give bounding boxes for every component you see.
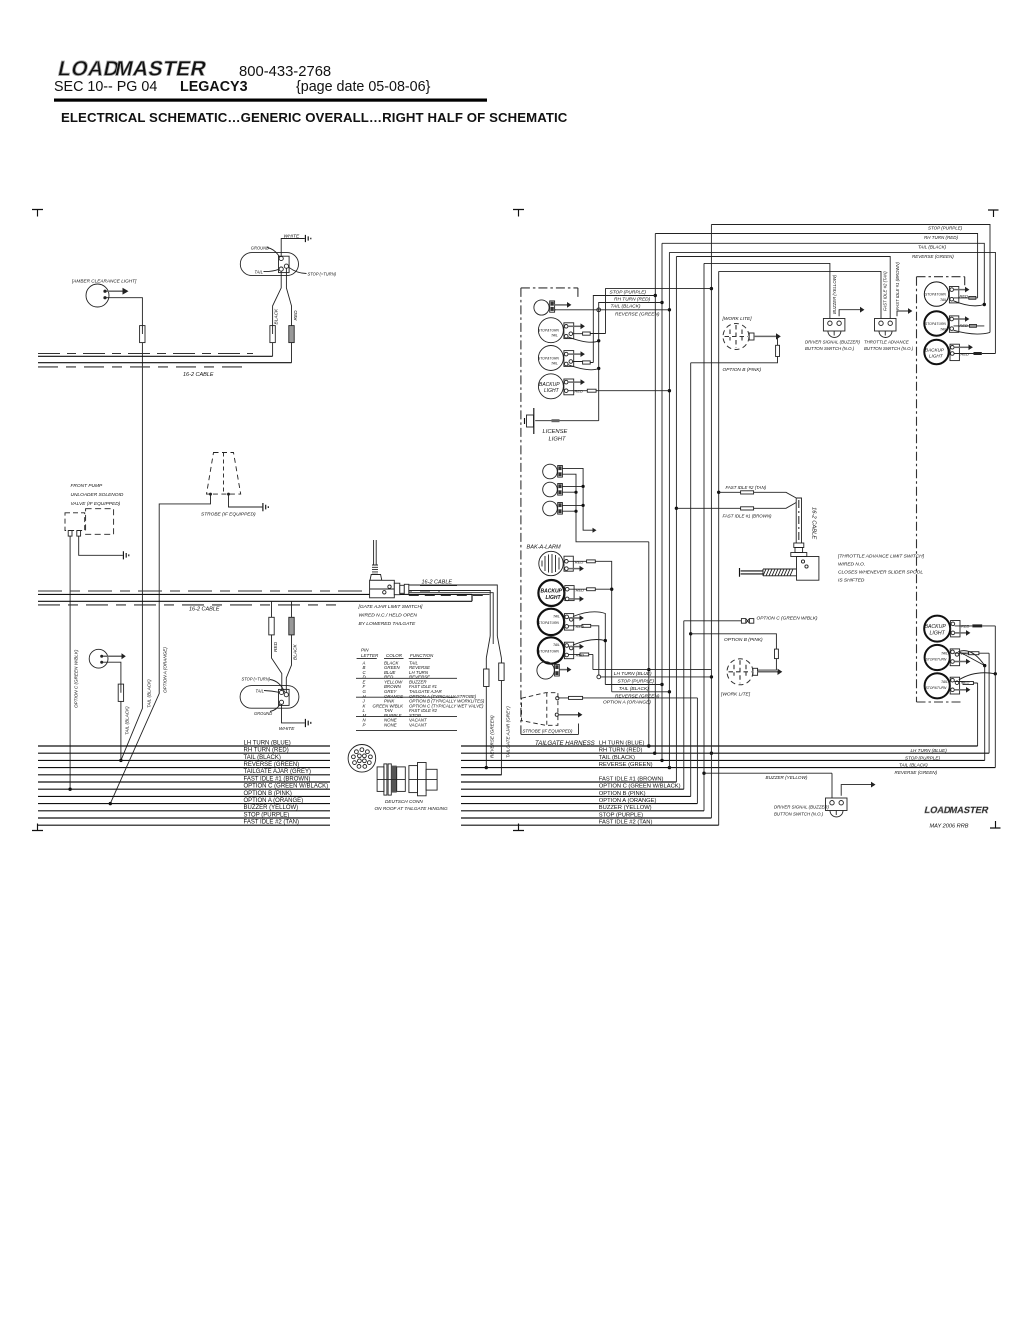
svg-text:UNLOADER SOLENOID: UNLOADER SOLENOID [71,492,124,498]
strobe (if equipped) tailgate [522,693,558,726]
wire RED from stop pin down [286,268,291,325]
tail diagonal lamp2 [568,365,599,370]
strobe (if equipped) dashed lamp [207,453,241,495]
svg-text:BUTTON SWITCH (N.O.): BUTTON SWITCH (N.O.) [864,346,914,351]
svg-text:[AMBER CLEARANCE LIGHT]: [AMBER CLEARANCE LIGHT] [71,279,137,284]
svg-text:BACKUP: BACKUP [925,624,947,630]
svg-text:[WORK LITE]: [WORK LITE] [722,316,753,322]
dots tail chain [597,339,600,342]
small lamp bottom of cluster [537,662,554,679]
svg-text:OPTION C (GREEN W/BLACK): OPTION C (GREEN W/BLACK) [599,784,681,790]
svg-text:[WORK LITE]: [WORK LITE] [720,692,751,698]
svg-text:TAIL: TAIL [256,689,264,694]
svg-text:CLOSES WHENEVER SLIDER SPOOL: CLOSES WHENEVER SLIDER SPOOL [838,570,923,576]
svg-text:STOP&TURN: STOP&TURN [926,686,947,690]
header rule [54,99,487,102]
fuse black wire [270,326,275,343]
svg-text:STOP&TURN: STOP&TURN [538,650,559,654]
throttle advance button switch [875,319,897,332]
svg-text:STOP (PURPLE): STOP (PURPLE) [905,755,940,760]
svg-text:OPTION A (ORANGE): OPTION A (ORANGE) [603,699,651,705]
svg-text:STOP (PURPLE): STOP (PURPLE) [618,678,655,684]
svg-text:STOP (PURPLE): STOP (PURPLE) [928,226,963,231]
svg-text:TAILGATE HARNESS: TAILGATE HARNESS [535,740,595,747]
fuse red wire [289,326,294,343]
svg-text:TAIL: TAIL [941,680,948,684]
fuse on amber tail wire [140,326,145,343]
funnel into two wires [486,636,501,658]
svg-text:ON ROOF AT TAILGATE HINGING: ON ROOF AT TAILGATE HINGING [375,806,449,811]
svg-text:WIRED N.C./ HELD OPEN: WIRED N.C./ HELD OPEN [359,613,418,619]
svg-text:OPTION B (PINK): OPTION B (PINK) [724,637,763,643]
svg-text:STOP&TURN: STOP&TURN [925,293,946,297]
svg-text:WIRED N.O.: WIRED N.O. [838,562,865,568]
svg-text:OPTION C (GREEN W/BLK): OPTION C (GREEN W/BLK) [757,616,818,622]
wire strobe left terminal to OPTION A [110,496,210,804]
right bottom lamp tail/stop&turn #2 [925,673,950,698]
logo LOADMASTER header [56,58,209,81]
wire TAIL (BLACK) from lamp cluster [599,303,662,421]
svg-text:TAIL (BLACK): TAIL (BLACK) [619,686,649,692]
cable gate switch to down-funnel [409,585,498,636]
vertical bus wires center [648,542,650,746]
svg-text:BAK-A-LARM: BAK-A-LARM [527,545,562,551]
chassis ground symbol top [305,235,310,242]
svg-text:REVERSE (GREEN): REVERSE (GREEN) [490,715,495,758]
svg-text:NONE: NONE [384,722,397,727]
right top lamp stop/turn #2 [924,311,948,335]
svg-text:FUNCTION: FUNCTION [410,653,434,658]
svg-text:TAIL: TAIL [553,615,560,619]
wire REVERSE (GREEN) from gate cable [485,658,487,669]
lamp backup top small [534,300,549,315]
svg-text:OPTION C (GREEN W/BLACK): OPTION C (GREEN W/BLACK) [244,784,329,790]
wire REVERSE (GREEN) from lamp cluster [555,309,670,311]
cable 16-2 down to limit switch [796,498,801,543]
svg-text:OPTION B (PINK): OPTION B (PINK) [599,791,646,797]
svg-text:STOP (PURPLE): STOP (PURPLE) [599,812,643,818]
svg-text:TAIL: TAIL [551,334,558,338]
lamp backup light tailgate [538,374,563,399]
svg-text:RED: RED [575,389,584,394]
svg-text:OPTION B (PINK): OPTION B (PINK) [723,367,762,373]
svg-text:LH TURN (BLUE): LH TURN (BLUE) [614,671,652,677]
deutsch connector plug bodies [377,767,384,792]
svg-text:REVERSE (GREEN): REVERSE (GREEN) [912,254,954,259]
wire fast idle #2 to cable [719,492,797,498]
svg-text:BUZZER (YELLOW): BUZZER (YELLOW) [766,775,808,780]
svg-text:BUTTON SWITCH (N.O.): BUTTON SWITCH (N.O.) [805,346,855,351]
svg-text:TAIL: TAIL [940,328,947,332]
svg-text:TAIL: TAIL [940,298,947,302]
svg-text:TAIL (BLACK): TAIL (BLACK) [244,755,281,761]
wire TAILGATE AJAR (GREY) from gate cable [500,658,502,663]
svg-text:OPTION A (ORANGE): OPTION A (ORANGE) [163,647,168,693]
svg-text:[THROTTLE ADVANCE LIMIT SWITCH: [THROTTLE ADVANCE LIMIT SWITCH] [837,554,925,560]
wire solenoid to ground [79,536,123,555]
fuse + wire to STOP vertical [573,333,606,335]
svg-text:LH TURN (BLUE): LH TURN (BLUE) [599,740,645,746]
solenoid valve dashed boxes [65,513,85,531]
svg-text:STOP&TURN: STOP&TURN [926,658,947,662]
wire license light [535,420,599,422]
svg-text:FAST IDLE #2 (TAN): FAST IDLE #2 (TAN) [244,820,299,826]
wires from bundle2 to bottom oval lamp with fuses [272,601,292,617]
wire amber light tail [107,298,143,326]
work lite bottom [727,659,753,685]
row OPTION A cluster from strobe [559,697,698,699]
chassis ground symbol front pump [123,551,128,559]
svg-text:16-2 CABLE: 16-2 CABLE [811,507,817,539]
arrow from lamp [103,655,122,657]
svg-text:BUTTON SWITCH (N.O.): BUTTON SWITCH (N.O.) [774,811,824,816]
center harness wire rows [461,745,978,747]
svg-text:BACKUP: BACKUP [925,348,945,353]
left harness wire rows [38,745,330,747]
wire fast idle #1 to cable [676,503,796,509]
svg-text:STROBE (IF EQUIPPED): STROBE (IF EQUIPPED) [523,729,573,734]
svg-text:STOP&TURN: STOP&TURN [538,621,559,625]
svg-text:PIN: PIN [361,648,369,653]
wire BLACK from tail pin down [273,271,282,325]
ground arrow of amber light [107,290,123,292]
svg-text:STOP (=TURN): STOP (=TURN) [308,272,337,277]
svg-text:RED: RED [576,588,585,593]
wire STOP (PURPLE) from lamp cluster [606,289,712,334]
svg-text:REVERSE (GREEN): REVERSE (GREEN) [599,762,653,768]
wire FAST IDLE #1 top [676,257,890,319]
chassis ground symbol strobe [263,503,268,511]
wire WHITE to ground bottom [282,704,305,723]
deutsch connector face [348,745,376,773]
svg-text:FAST IDLE #1 (BROWN): FAST IDLE #1 (BROWN) [244,776,311,782]
svg-text:RH TURN (RED): RH TURN (RED) [599,748,643,754]
svg-text:SEC 10-- PG 04: SEC 10-- PG 04 [54,79,157,95]
svg-text:{page date 05-08-06}: {page date 05-08-06} [296,79,431,95]
svg-text:STOP (PURPLE): STOP (PURPLE) [244,812,290,818]
svg-text:VACANT: VACANT [409,722,427,727]
junction dots on vertical bus wires [647,668,650,671]
svg-text:FAST IDLE #1 (BROWN): FAST IDLE #1 (BROWN) [895,262,900,310]
right side verticals to rows [977,683,979,746]
cable 16-2 bundle top [38,353,253,355]
svg-text:STOP&TURN: STOP&TURN [538,357,559,361]
svg-text:LIGHT: LIGHT [546,595,562,601]
svg-text:RH TURN (RED): RH TURN (RED) [614,296,651,302]
svg-text:FAST IDLE #1 (BROWN): FAST IDLE #1 (BROWN) [723,514,772,519]
right top backup light [924,340,948,364]
svg-text:REVERSE (GREEN): REVERSE (GREEN) [895,770,938,775]
right lamp cluster dashed border [917,277,965,702]
wire lamp to TAIL row with fuse [103,662,121,684]
svg-text:FAST IDLE #2 (TAN): FAST IDLE #2 (TAN) [599,820,653,826]
svg-text:MASTER: MASTER [113,58,209,81]
svg-text:BACKUP: BACKUP [541,589,563,595]
svg-text:STOP&TURN: STOP&TURN [925,322,946,326]
wires crossing pin table [356,678,457,730]
amber clearance light lamp [86,284,109,307]
svg-text:BY LOWERED TAILGATE: BY LOWERED TAILGATE [359,621,417,627]
svg-text:ELECTRICAL SCHEMATIC…GENERIC O: ELECTRICAL SCHEMATIC…GENERIC OVERALL…RIG… [61,110,568,125]
wires marker lamps to common verticals [562,468,592,530]
svg-text:TAILGATE AJAR (GREY): TAILGATE AJAR (GREY) [244,769,311,775]
solenoid prongs [68,531,72,537]
svg-text:GROUND: GROUND [251,246,269,251]
svg-text:WHITE: WHITE [279,726,295,732]
svg-text:DRIVER SIGNAL (BUZZER): DRIVER SIGNAL (BUZZER) [774,805,830,810]
svg-text:OPTION A (ORANGE): OPTION A (ORANGE) [244,798,304,804]
svg-text:LH TURN (BLUE): LH TURN (BLUE) [911,748,948,753]
svg-text:LH TURN (BLUE): LH TURN (BLUE) [244,740,291,746]
svg-text:800-433-2768: 800-433-2768 [239,64,331,80]
svg-text:LEGACY3: LEGACY3 [180,79,248,95]
svg-text:RH TURN (RED): RH TURN (RED) [244,748,289,754]
oval stop/tail lamp bottom [240,686,299,709]
svg-text:FAST IDLE #1 (BROWN): FAST IDLE #1 (BROWN) [599,776,664,782]
wire option B top with fuse [691,338,778,363]
svg-text:RED: RED [961,680,970,685]
svg-text:LICENSE: LICENSE [543,429,568,435]
corner mark top-right [988,210,999,217]
corner mark top-left [32,210,43,217]
row STOP cluster [597,675,601,679]
wire strobe right terminal to ground [229,496,263,508]
row REVERSE cluster [612,691,670,693]
svg-text:LIGHT: LIGHT [549,437,567,443]
svg-text:RH TURN (RED): RH TURN (RED) [924,235,958,240]
svg-text:TAILGATE AJAR (GREY): TAILGATE AJAR (GREY) [506,706,511,758]
svg-text:STOP (PURPLE): STOP (PURPLE) [610,289,647,295]
svg-text:VALVE (IF EQUIPPED): VALVE (IF EQUIPPED) [71,501,121,507]
chassis ground symbol bottom lamp [305,719,310,727]
svg-text:OPTION B (PINK): OPTION B (PINK) [244,791,292,797]
svg-text:BUZZER (YELLOW): BUZZER (YELLOW) [599,805,652,811]
TAIL STOP&TURN lamp middle #1 [538,609,564,635]
svg-text:STOP&TURN: STOP&TURN [538,329,559,333]
svg-text:OPTION A (ORANGE): OPTION A (ORANGE) [599,798,657,804]
svg-text:MASTER: MASTER [949,805,990,815]
svg-text:DRIVER SIGNAL (BUZZER): DRIVER SIGNAL (BUZZER) [805,340,861,345]
svg-text:LIGHT: LIGHT [929,354,944,359]
row TAIL cluster [605,684,662,686]
wire amber tail continues down to TAIL row [121,343,142,761]
corner mark bottom-right [990,821,1001,828]
circle tail lamp lower-left [89,649,108,668]
svg-text:TAIL: TAIL [255,270,263,275]
svg-text:TAIL (BLACK): TAIL (BLACK) [599,755,635,761]
svg-text:P: P [363,722,366,727]
svg-text:FAST IDLE #2 (TAN): FAST IDLE #2 (TAN) [883,271,888,311]
svg-text:STROBE (IF EQUIPPED): STROBE (IF EQUIPPED) [201,512,256,518]
right top lamp stop/turn #1 [924,282,948,306]
wire FAST IDLE #2 top [719,271,881,318]
wire bundle2 to gate cable junction [472,593,490,595]
TAIL STOP&TURN lamp middle #2 [538,637,564,663]
svg-text:LOAD: LOAD [56,58,122,81]
driver signal buzzer button switch bottom [826,798,848,811]
gate ajar limit switch [374,540,377,565]
corner mark top-center [513,210,524,217]
svg-text:LIGHT: LIGHT [544,388,560,394]
svg-text:OPTION C (GREEN W/BLK): OPTION C (GREEN W/BLK) [74,649,79,708]
svg-text:TAIL (BLACK): TAIL (BLACK) [147,679,152,708]
svg-text:IS SHIFTED: IS SHIFTED [838,578,865,584]
wire buzzer to bottom switch [704,772,832,774]
svg-text:FAST IDLE #2 (TAN): FAST IDLE #2 (TAN) [726,485,767,490]
tail diagonal lamp1 [568,337,599,342]
lamp stop/turn tail #1 tailgate [538,318,563,343]
svg-text:BUZZER (YELLOW): BUZZER (YELLOW) [244,805,299,811]
corner mark bottom-center [513,824,524,831]
svg-text:BLACK: BLACK [292,643,298,660]
svg-text:LETTER: LETTER [361,653,379,658]
svg-text:MAY 2006 RRB: MAY 2006 RRB [930,824,969,830]
svg-text:TAIL (BLACK): TAIL (BLACK) [125,706,130,735]
wire RH TURN (RED) from lamp cluster [593,296,655,363]
logo LOADMASTER bottom [924,805,990,815]
svg-text:RED: RED [293,310,299,321]
corner mark bottom-left [32,824,43,831]
small marker lamps x3 [543,464,558,479]
lamp stop/turn tail #2 tailgate [538,346,563,371]
svg-text:REVERSE (GREEN): REVERSE (GREEN) [615,312,660,318]
wires from fuses into cable bundle 1 [273,343,292,363]
svg-text:THROTTLE ADVANCE: THROTTLE ADVANCE [864,340,909,345]
svg-text:TAIL (BLACK): TAIL (BLACK) [918,245,947,250]
svg-text:REVERSE (GREEN): REVERSE (GREEN) [244,762,300,768]
oval stop/tail lamp top [240,253,298,276]
right bottom backup light [924,616,950,642]
svg-text:GROUND: GROUND [254,711,272,716]
svg-text:16-2 CABLE: 16-2 CABLE [183,372,214,378]
svg-text:DEUTSCH CONN: DEUTSCH CONN [385,799,423,804]
tailgate harness dashed border [520,288,522,735]
svg-text:COLOR: COLOR [386,653,403,658]
row LH TURN cluster [593,669,712,671]
svg-text:TAIL: TAIL [941,652,948,656]
dot STOP vertical joins right STOP row [710,752,713,755]
svg-text:FRONT PUMP: FRONT PUMP [71,483,104,489]
svg-text:BLACK: BLACK [274,308,280,325]
svg-text:LOAD: LOAD [924,805,952,815]
svg-text:STOP (=TURN): STOP (=TURN) [242,677,271,682]
svg-text:TAIL: TAIL [553,643,560,647]
wire BUZZER top [704,263,830,318]
license light symbol [533,408,535,434]
option C butt connector [684,620,742,622]
wire solenoid to OPTION C row [69,536,71,789]
svg-text:TAIL: TAIL [551,362,558,366]
svg-text:RED: RED [961,352,970,357]
right bottom lamp tail/stop&turn #1 [925,645,950,670]
nested top wires to right side [711,225,990,333]
svg-text:RED: RED [575,560,584,565]
cable 16-2 bundle lower [38,590,440,592]
svg-text:REVERSE (GREEN): REVERSE (GREEN) [615,693,660,699]
svg-text:LIGHT: LIGHT [930,631,946,637]
svg-text:TAIL (BLACK): TAIL (BLACK) [611,304,641,310]
throttle advance limit switch [794,543,804,548]
svg-text:16-2 CABLE: 16-2 CABLE [189,607,220,613]
svg-text:[GATE AJAR LIMIT SWITCH]: [GATE AJAR LIMIT SWITCH] [358,604,423,610]
svg-text:RED: RED [273,641,279,652]
svg-text:BUZZER (YELLOW): BUZZER (YELLOW) [832,274,837,314]
BACKUP LIGHT middle [538,580,564,606]
svg-text:TAIL (BLACK): TAIL (BLACK) [899,763,928,768]
wire option B bottom [691,634,777,670]
driver signal buzzer button switch top [823,319,845,332]
